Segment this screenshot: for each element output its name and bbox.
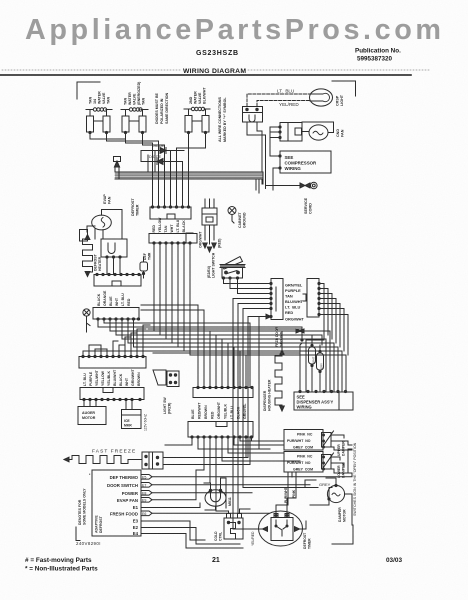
fast freeze heater bbox=[64, 456, 142, 464]
wires: mold heater and cold control feeds bbox=[196, 478, 306, 548]
wires: pink & pur/wht drops to defrost timer bbox=[276, 472, 296, 514]
diode D1 bbox=[141, 144, 184, 154]
svg-text:TAN: TAN bbox=[124, 97, 128, 105]
wires: right connector fan to dispenser bbox=[282, 284, 348, 392]
svg-text:ORG/WHT: ORG/WHT bbox=[217, 401, 221, 419]
svg-text:Publication No.: Publication No. bbox=[355, 48, 401, 55]
svg-text:03/03: 03/03 bbox=[386, 557, 402, 564]
svg-text:VALVE: VALVE bbox=[198, 92, 202, 104]
svg-text:YEL/BLK: YEL/BLK bbox=[107, 371, 111, 386]
svg-text:YEL/WHT: YEL/WHT bbox=[95, 369, 99, 386]
dispenser housing heater bbox=[275, 350, 284, 411]
splice connector bbox=[294, 329, 310, 341]
svg-text:CND: CND bbox=[336, 129, 340, 137]
svg-text:E2: E2 bbox=[133, 525, 139, 530]
svg-text:WHT: WHT bbox=[115, 297, 119, 306]
svg-text:MKR: MKR bbox=[124, 424, 132, 428]
light switch label bbox=[207, 252, 216, 278]
svg-text:* = Non-Illustrated Parts: * = Non-Illustrated Parts bbox=[25, 566, 98, 573]
timer aux contact bbox=[140, 252, 152, 278]
upper damper switch bbox=[284, 430, 334, 451]
defrost timer assembly bbox=[258, 511, 303, 546]
svg-text:PINK NC: PINK NC bbox=[297, 455, 313, 459]
svg-text:CORD: CORD bbox=[309, 203, 313, 214]
svg-text:AUGER: AUGER bbox=[82, 411, 95, 415]
svg-text:E6: E6 bbox=[142, 512, 146, 516]
svg-text:GRY: GRY bbox=[320, 363, 324, 369]
defrost heater label bbox=[94, 253, 103, 271]
scan noise overlay (decorative) bbox=[0, 0, 1, 1]
svg-text:LIGHT SWITCH: LIGHT SWITCH bbox=[212, 252, 216, 278]
bar G wire labels bbox=[191, 401, 247, 419]
water valve 1 label "1/4 WATER VALVE TAN" bbox=[89, 91, 111, 104]
note "DIODES MUST BE POLARIZED IN SAME DIRECTION" bbox=[155, 92, 169, 124]
water valve 2 label "WATER VALVE (ENERGIZED) TAN" bbox=[124, 81, 146, 105]
fast freeze relay bbox=[142, 452, 163, 469]
mold heater M811 bbox=[205, 489, 232, 506]
svg-text:BLU/WHT: BLU/WHT bbox=[285, 299, 304, 304]
svg-text:BLUE: BLUE bbox=[191, 409, 195, 419]
svg-text:COLD: COLD bbox=[214, 531, 218, 541]
wires: feeders into upper bar bbox=[141, 305, 246, 388]
svg-text:FAN: FAN bbox=[341, 129, 345, 137]
svg-text:ORG/WHT: ORG/WHT bbox=[199, 231, 203, 248]
connector bar G upper (dispenser harness plug) bbox=[193, 386, 253, 397]
svg-text:EVAP: EVAP bbox=[103, 194, 107, 204]
svg-text:E3: E3 bbox=[133, 519, 139, 524]
title leader dots bbox=[2, 69, 182, 71]
svg-text:5995387320: 5995387320 bbox=[357, 56, 393, 63]
svg-text:LIGHT SW: LIGHT SW bbox=[163, 397, 167, 414]
fresh food light switch bbox=[220, 257, 245, 280]
svg-text:VALVE: VALVE bbox=[133, 93, 137, 105]
svg-text:LT. BLU: LT. BLU bbox=[285, 305, 300, 310]
svg-text:WHT: WHT bbox=[125, 377, 129, 386]
svg-text:COMPRESSOR: COMPRESSOR bbox=[285, 161, 318, 166]
svg-text:ICE: ICE bbox=[124, 419, 130, 423]
frame corner bottom-right bbox=[332, 525, 353, 544]
bar C wire labels bbox=[97, 290, 131, 306]
water valve 1 (1/4 water valve) bbox=[86, 108, 112, 134]
svg-text:E7: E7 bbox=[142, 484, 146, 488]
door switch U (crisper light switch) bbox=[243, 107, 263, 123]
svg-text:SAME DIRECTION: SAME DIRECTION bbox=[165, 92, 169, 124]
svg-text:BROWN: BROWN bbox=[137, 372, 141, 386]
condenser fan label bbox=[336, 129, 345, 137]
svg-text:ADAPTIVE: ADAPTIVE bbox=[95, 515, 99, 533]
svg-text:DAMPER: DAMPER bbox=[338, 507, 342, 522]
svg-text:YEL/RED: YEL/RED bbox=[251, 531, 255, 546]
svg-text:BLACK: BLACK bbox=[182, 220, 186, 233]
pur/wht pink feed labels bbox=[284, 486, 296, 503]
svg-text:BLACK: BLACK bbox=[97, 293, 101, 306]
wire band (multi-wire harness run) bbox=[114, 157, 264, 180]
svg-text:(FRZR): (FRZR) bbox=[168, 403, 172, 414]
wires: grey loop to damper motor bbox=[243, 478, 352, 525]
svg-text:FAST FREEZE: FAST FREEZE bbox=[92, 449, 136, 455]
frame corner top-right bbox=[332, 81, 356, 96]
condenser fan motor bbox=[302, 122, 334, 140]
svg-text:PURPLE: PURPLE bbox=[89, 371, 93, 386]
svg-text:WIRING DIAGRAM: WIRING DIAGRAM bbox=[183, 68, 246, 75]
svg-text:TAN: TAN bbox=[107, 96, 111, 104]
svg-text:SOME MODELS ONLY: SOME MODELS ONLY bbox=[83, 488, 87, 525]
svg-text:DENOTES FOR: DENOTES FOR bbox=[78, 499, 82, 525]
svg-text:WATER: WATER bbox=[98, 91, 102, 104]
svg-text:WHT: WHT bbox=[170, 224, 174, 233]
svg-text:RED: RED bbox=[127, 298, 131, 306]
water valve 3 (2nd water valve) bbox=[184, 107, 210, 133]
svg-text:240V8290I: 240V8290I bbox=[76, 541, 101, 546]
wire mesh center bbox=[83, 243, 346, 391]
service cord wire bbox=[266, 182, 318, 189]
svg-text:TIMER: TIMER bbox=[136, 204, 140, 216]
svg-text:LOWER: LOWER bbox=[337, 465, 341, 478]
wires: long drops to bottom components bbox=[233, 299, 263, 530]
crisper light label bbox=[336, 94, 345, 106]
svg-text:(ENERGIZED): (ENERGIZED) bbox=[137, 81, 141, 105]
connector bar C bbox=[94, 273, 141, 286]
damper motor bbox=[327, 484, 344, 502]
svg-text:RED: RED bbox=[211, 411, 215, 419]
svg-text:*: * bbox=[89, 473, 91, 477]
svg-text:21: 21 bbox=[212, 557, 220, 564]
lower damper label bbox=[337, 463, 346, 478]
svg-text:TIMER: TIMER bbox=[308, 538, 312, 549]
cabinet ground symbol bbox=[228, 207, 236, 224]
svg-text:GREY: GREY bbox=[319, 482, 331, 487]
svg-text:PUR/WHT NO: PUR/WHT NO bbox=[287, 439, 311, 443]
denotes bracket bbox=[76, 527, 80, 541]
svg-text:BLU/WHT: BLU/WHT bbox=[113, 369, 117, 386]
svg-text:WIRING: WIRING bbox=[297, 405, 312, 410]
ice maker box bbox=[122, 400, 148, 432]
svg-text:2ND: 2ND bbox=[189, 96, 193, 104]
evap fan label bbox=[103, 194, 112, 204]
svg-text:DEFROST: DEFROST bbox=[303, 532, 307, 549]
cabinet ground label bbox=[238, 212, 247, 228]
svg-text:BLK/WHT: BLK/WHT bbox=[203, 87, 207, 104]
svg-text:M811: M811 bbox=[228, 497, 232, 506]
freezer harness connector (left) bbox=[270, 279, 283, 320]
harness wire name list bbox=[285, 283, 304, 322]
bracket for dispenser feed bbox=[186, 233, 193, 243]
svg-text:YEL/BLK: YEL/BLK bbox=[224, 404, 228, 419]
defrost timer assembly label bbox=[303, 532, 312, 549]
svg-text:E9: E9 bbox=[142, 499, 146, 503]
svg-text:SEE: SEE bbox=[285, 155, 294, 160]
auger motor box bbox=[78, 400, 106, 425]
lower damper switch bbox=[284, 452, 334, 473]
svg-text:CRSP: CRSP bbox=[336, 95, 340, 106]
defrost timer box bbox=[101, 239, 127, 274]
svg-text:BLUE: BLUE bbox=[109, 296, 113, 306]
svg-text:TAN: TAN bbox=[285, 294, 293, 299]
wire YEL/RED to crisper light (dash-dot) bbox=[257, 101, 310, 107]
svg-text:BLACK: BLACK bbox=[119, 373, 123, 386]
svg-text:GREY COM: GREY COM bbox=[293, 446, 313, 450]
svg-text:DEFROST: DEFROST bbox=[131, 198, 135, 216]
connector bar B (timer output) bbox=[149, 234, 197, 245]
svg-text:E8: E8 bbox=[142, 492, 146, 496]
svg-text:PURPLE: PURPLE bbox=[285, 288, 301, 293]
water valve 2 (energized water valve) bbox=[121, 108, 148, 134]
svg-text:DAMPER: DAMPER bbox=[342, 441, 346, 456]
housing heater label bbox=[263, 379, 272, 411]
water valve 3 label "2ND WATER VALVE" bbox=[189, 87, 207, 104]
connector bar D bbox=[93, 308, 140, 321]
frame corner top-left bbox=[77, 82, 100, 99]
svg-text:GROUND: GROUND bbox=[243, 212, 247, 228]
svg-text:GS23HSZB: GS23HSZB bbox=[196, 50, 238, 57]
freezer light switch bbox=[153, 370, 179, 414]
svg-text:RED: RED bbox=[152, 225, 156, 233]
svg-text:GRN/WHT: GRN/WHT bbox=[131, 368, 135, 386]
see compressor wiring box bbox=[279, 151, 331, 173]
svg-text:LIGHT: LIGHT bbox=[340, 94, 344, 106]
freezer harness connector (right) bbox=[303, 279, 320, 318]
svg-text:FAN: FAN bbox=[108, 196, 112, 204]
connector bar F bbox=[80, 388, 144, 401]
cold control bbox=[214, 514, 243, 542]
svg-text:ALL WIRE CONNECTIONS: ALL WIRE CONNECTIONS bbox=[218, 97, 222, 142]
note "ALL WIRE CONNECTIONS MARKED BY + SYMBOL" bbox=[218, 97, 227, 142]
svg-text:DEF: DEF bbox=[143, 253, 147, 260]
svg-text:LT. BLU: LT. BLU bbox=[277, 89, 294, 94]
crisper light lamp bbox=[310, 89, 333, 106]
svg-text:RED/WHT: RED/WHT bbox=[198, 402, 202, 419]
svg-text:MOTOR: MOTOR bbox=[343, 509, 347, 522]
wires: damper switch commons bbox=[331, 435, 353, 473]
upper damper label bbox=[337, 441, 346, 456]
svg-text:E5: E5 bbox=[142, 476, 146, 480]
svg-text:(RED): (RED) bbox=[218, 239, 222, 248]
svg-text:E1: E1 bbox=[133, 505, 139, 510]
svg-text:TAN: TAN bbox=[142, 97, 146, 105]
svg-text:TAN: TAN bbox=[89, 96, 93, 104]
svg-text:1/4: 1/4 bbox=[93, 99, 97, 104]
connector bar G (dispenser harness) bbox=[188, 422, 253, 439]
svg-text:ORG/WHT: ORG/WHT bbox=[285, 317, 304, 322]
diode D2 bbox=[143, 155, 180, 165]
damper motor label bbox=[338, 507, 347, 522]
svg-text:PUR/WHT NO: PUR/WHT NO bbox=[287, 461, 311, 465]
svg-text:POWER: POWER bbox=[122, 491, 139, 496]
svg-text:PINK: PINK bbox=[292, 489, 296, 498]
svg-text:TAN: TAN bbox=[164, 225, 168, 232]
svg-text:CTRL: CTRL bbox=[219, 532, 223, 541]
wire band right corners down bbox=[256, 172, 263, 193]
svg-text:YELLOW: YELLOW bbox=[101, 370, 105, 386]
svg-text:GREY COM: GREY COM bbox=[293, 468, 313, 472]
svg-text:PINK NC: PINK NC bbox=[297, 433, 313, 437]
svg-text:DOOR SWITCH: DOOR SWITCH bbox=[107, 483, 138, 488]
wires: valves down to band/connectors bbox=[90, 133, 206, 208]
svg-text:115V 60HZ: 115V 60HZ bbox=[144, 414, 148, 431]
svg-text:WHT: WHT bbox=[312, 356, 316, 363]
chassis ground key bbox=[83, 309, 90, 332]
defrost heater element bbox=[83, 235, 93, 277]
adaptive defrost control board bbox=[92, 470, 141, 536]
svg-text:LT. BLU: LT. BLU bbox=[83, 373, 87, 386]
bar E wire labels bbox=[83, 368, 141, 386]
svg-text:SERVICE: SERVICE bbox=[304, 197, 308, 214]
svg-text:E4: E4 bbox=[133, 531, 139, 536]
svg-text:ORANGE: ORANGE bbox=[103, 290, 107, 306]
svg-text:AppliancePartsPros.com: AppliancePartsPros.com bbox=[25, 14, 441, 46]
svg-text:MOTOR: MOTOR bbox=[82, 416, 96, 420]
bar A wire labels bbox=[152, 217, 186, 233]
svg-text:DIODES MUST BE: DIODES MUST BE bbox=[155, 92, 159, 124]
svg-text:YEL/RED: YEL/RED bbox=[279, 102, 299, 107]
svg-text:POLARIZED IN: POLARIZED IN bbox=[160, 98, 164, 124]
svg-text:HEATER: HEATER bbox=[98, 256, 102, 271]
inline fuse links bbox=[309, 335, 324, 391]
svg-text:CABINET: CABINET bbox=[238, 212, 242, 228]
wires: fast freeze relay to right bbox=[163, 458, 250, 465]
evap fan motor bbox=[87, 210, 122, 240]
svg-text:DISPENSER: DISPENSER bbox=[263, 390, 267, 411]
service cord label bbox=[304, 197, 313, 214]
svg-text:GRN/YEL: GRN/YEL bbox=[243, 403, 247, 419]
svg-text:TMR: TMR bbox=[148, 252, 152, 260]
svg-text:DEFROST: DEFROST bbox=[99, 515, 103, 533]
svg-text:LT. BLU: LT. BLU bbox=[176, 219, 180, 232]
title rule bbox=[0, 74, 411, 76]
svg-text:DEFROST: DEFROST bbox=[94, 253, 98, 271]
wire LT. BLU to crisper light (dash-dot) bbox=[247, 94, 310, 107]
svg-text:GRN/YEL: GRN/YEL bbox=[285, 283, 303, 288]
ADC terminal tags E5 E7 E8 E9 E6 bbox=[141, 475, 152, 517]
svg-text:BROWN: BROWN bbox=[204, 405, 208, 419]
defrost timer label bbox=[131, 198, 140, 216]
wires: light switch to freezer connector bbox=[224, 278, 272, 317]
svg-text:LT. BLU: LT. BLU bbox=[121, 293, 125, 306]
svg-text:FRESH FOOD: FRESH FOOD bbox=[110, 512, 138, 517]
icemaker fill labels bbox=[199, 231, 222, 248]
connector bar E bbox=[79, 355, 146, 368]
compressor relay/overload bbox=[279, 123, 302, 142]
svg-text:MARKED BY "+" SYMBOL: MARKED BY "+" SYMBOL bbox=[223, 97, 227, 142]
svg-text:# = Fast-moving Parts: # = Fast-moving Parts bbox=[25, 557, 92, 564]
freezer door ground bbox=[259, 314, 284, 449]
connector bar A (timer plug) bbox=[150, 206, 191, 219]
svg-text:(E2/E4): (E2/E4) bbox=[207, 266, 211, 278]
svg-text:RED: RED bbox=[285, 310, 293, 315]
svg-text:SWITCHES SIGN IN THE "OPEN" PO: SWITCHES SIGN IN THE "OPEN" POSITION bbox=[353, 442, 357, 516]
wires: bar G fan-out bbox=[165, 437, 300, 514]
svg-text:WIRING: WIRING bbox=[285, 166, 302, 171]
svg-text:HOUSING HEATER: HOUSING HEATER bbox=[268, 379, 272, 411]
see dispenser assy wiring box bbox=[294, 390, 353, 410]
wires: ADC terminals to loads bbox=[141, 470, 352, 548]
icemaker fill connector bbox=[202, 199, 217, 252]
svg-text:WATER: WATER bbox=[128, 92, 132, 105]
svg-text:VALVE: VALVE bbox=[102, 92, 106, 104]
svg-text:WATER: WATER bbox=[194, 91, 198, 104]
svg-text:YELLOW: YELLOW bbox=[158, 217, 162, 233]
wire: door switch to relay feeds bbox=[247, 122, 280, 190]
ADC board labels bbox=[78, 473, 103, 533]
svg-text:DEF THERMO: DEF THERMO bbox=[110, 475, 139, 480]
svg-text:EVAP FAN: EVAP FAN bbox=[117, 498, 138, 503]
evap fan connector block bbox=[80, 230, 88, 242]
